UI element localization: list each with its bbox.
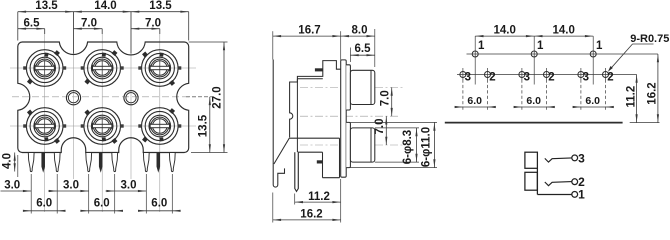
side view centerline upper barrel <box>300 86 404 88</box>
svg-text:3: 3 <box>578 151 585 165</box>
svg-text:6.0: 6.0 <box>467 95 482 107</box>
svg-text:13.5: 13.5 <box>198 114 210 137</box>
extension lines top row <box>17 12 19 41</box>
pins column 1 front <box>28 153 60 172</box>
connector J2 front <box>81 50 124 87</box>
centerline row 2 <box>10 125 196 127</box>
dim 3.0 first <box>17 155 19 177</box>
board line <box>445 122 623 124</box>
svg-text:2: 2 <box>489 71 495 83</box>
pins column 2 front <box>86 153 118 172</box>
centerline notch A <box>73 12 75 179</box>
svg-text:14.0: 14.0 <box>553 24 575 36</box>
dim 6-phi8.3 <box>375 127 419 129</box>
svg-text:11.2: 11.2 <box>626 86 638 108</box>
svg-text:6.0: 6.0 <box>36 197 52 209</box>
svg-text:3.0: 3.0 <box>121 180 137 192</box>
svg-text:2: 2 <box>607 71 613 83</box>
side view centerline lower barrel <box>300 144 404 146</box>
connector J3 front <box>138 50 181 87</box>
svg-text:6.0: 6.0 <box>151 197 167 209</box>
flange side <box>341 60 347 177</box>
svg-text:11.2: 11.2 <box>308 191 330 203</box>
pins column 3 front <box>143 153 175 172</box>
svg-text:3: 3 <box>465 71 471 83</box>
dim 11.2 bottom <box>294 194 296 205</box>
svg-text:27.0: 27.0 <box>212 86 224 108</box>
svg-text:13.5: 13.5 <box>35 0 58 12</box>
svg-text:6-φ11.0: 6-φ11.0 <box>420 127 432 167</box>
upper collar side <box>346 65 350 110</box>
svg-text:16.2: 16.2 <box>646 82 658 104</box>
upper barrel cap line <box>370 70 372 104</box>
dim 13.5 right vertical <box>186 96 212 98</box>
wire to terminal 1 <box>537 194 571 196</box>
body bottom side <box>290 137 340 139</box>
jack symbol S1 <box>525 152 538 168</box>
mounting hole B <box>124 91 138 105</box>
connector J5 front <box>81 108 124 145</box>
group 1 pin 2 <box>487 68 489 80</box>
group 3 pin 3 <box>580 68 582 80</box>
svg-text:4.0: 4.0 <box>1 153 13 169</box>
body inner wall <box>296 79 298 152</box>
terminal 3 <box>572 155 578 161</box>
svg-text:3.0: 3.0 <box>63 180 79 192</box>
extension ticks connector centers <box>44 29 46 34</box>
svg-text:14.0: 14.0 <box>94 0 116 12</box>
svg-text:1: 1 <box>596 40 603 52</box>
svg-text:7.0: 7.0 <box>379 90 391 106</box>
svg-text:2: 2 <box>548 71 554 83</box>
group 2 pin 3 <box>521 68 523 80</box>
group 1 centerline <box>474 36 476 84</box>
group 2 pin 2 <box>546 68 548 80</box>
svg-text:9-R0.75: 9-R0.75 <box>630 33 669 45</box>
svg-text:14.0: 14.0 <box>494 24 516 36</box>
pin row line 1 <box>467 53 658 55</box>
svg-text:3.0: 3.0 <box>4 180 20 192</box>
svg-text:7.0: 7.0 <box>374 119 386 135</box>
svg-text:1: 1 <box>537 40 544 52</box>
foot tab side <box>322 152 324 178</box>
group 3 pin 2 <box>605 68 607 80</box>
dim 16.7 <box>272 31 274 59</box>
centerline notch B <box>130 12 132 179</box>
group 1 pin 3 <box>462 68 464 80</box>
dim 8.0 <box>374 29 376 67</box>
centerline column 3 <box>159 29 161 212</box>
top tab side <box>315 68 323 71</box>
group 3 pin 1 <box>590 51 596 57</box>
svg-text:6.0: 6.0 <box>585 95 600 107</box>
svg-text:3: 3 <box>524 71 530 83</box>
dim 6.0 column 2 <box>88 174 90 214</box>
centerline column 1 <box>44 29 46 212</box>
group 2 pin 1 <box>531 51 537 57</box>
dim 6.5 side <box>349 48 351 63</box>
upper barrel side <box>350 70 374 104</box>
extension lines notch centers <box>73 12 75 54</box>
svg-text:16.7: 16.7 <box>298 25 320 37</box>
foot nub <box>317 160 323 163</box>
group 2 dim 6.0 <box>521 80 523 111</box>
terminal 2 <box>572 179 578 185</box>
centerline row 1 <box>10 67 196 69</box>
group 3 dim 6.0 <box>580 80 582 111</box>
connector J1 front <box>23 50 66 87</box>
lower collar side <box>346 122 350 167</box>
svg-text:6.0: 6.0 <box>94 197 110 209</box>
svg-text:3: 3 <box>583 71 589 83</box>
switch contact 2 <box>545 182 572 186</box>
group 3 centerline <box>592 36 594 84</box>
lower barrel side <box>350 128 374 162</box>
body side outline <box>290 61 341 138</box>
body ledge line <box>297 78 322 80</box>
dim 6.0 column 1 <box>30 174 32 214</box>
leader 9-R0.75 <box>633 43 654 45</box>
group 1 pin 1 <box>472 51 478 57</box>
pin side view <box>295 152 299 191</box>
dim 6.0 column 3 <box>145 174 147 214</box>
mounting hole A <box>66 91 80 105</box>
connector J4 front <box>23 108 66 145</box>
lower barrel cap line <box>370 128 372 162</box>
svg-text:6-φ8.3: 6-φ8.3 <box>402 130 414 164</box>
bracket diagonal <box>274 138 290 164</box>
dim 6-phi11.0 <box>350 121 437 123</box>
svg-text:1: 1 <box>478 40 485 52</box>
dim 27.0 right <box>189 41 228 43</box>
svg-text:1: 1 <box>578 188 585 202</box>
dim 16.2 bottom <box>272 193 274 223</box>
centerline column 2 <box>101 29 103 212</box>
switch contact 3 <box>545 158 572 162</box>
svg-text:6.5: 6.5 <box>355 43 372 55</box>
group 2 centerline <box>533 36 535 84</box>
pin row line 2 <box>457 74 637 76</box>
svg-text:16.2: 16.2 <box>300 208 322 220</box>
terminal 1 <box>572 192 578 198</box>
svg-text:2: 2 <box>578 175 585 189</box>
panel bracket side <box>273 60 284 188</box>
centerline mid row <box>12 96 196 98</box>
group 1 dim 6.0 <box>462 80 464 111</box>
jack symbol S2 <box>525 172 538 190</box>
svg-text:8.0: 8.0 <box>352 25 368 37</box>
side view centerline mid <box>300 115 398 117</box>
svg-text:13.5: 13.5 <box>149 0 172 12</box>
connector J6 front <box>138 108 181 145</box>
schematic bus wire <box>536 168 538 194</box>
board line extension <box>630 122 660 124</box>
svg-text:6.0: 6.0 <box>526 95 541 107</box>
